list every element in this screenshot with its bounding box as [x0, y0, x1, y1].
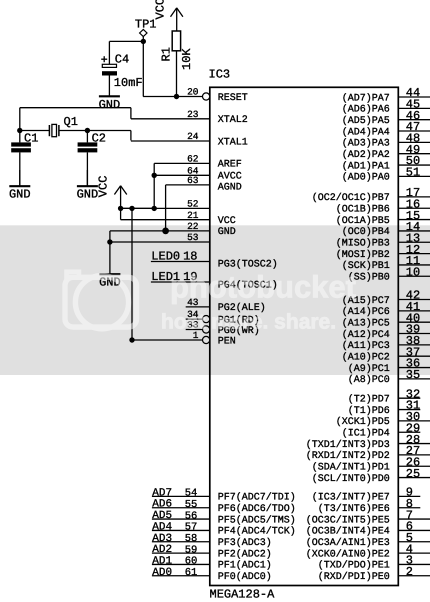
junction PEN branch: [129, 206, 134, 211]
label IC3: [209, 68, 231, 82]
pin label (A8)PC0: [348, 374, 390, 386]
pin label (A12)PC4: [342, 329, 390, 341]
wire pin 55 net AD6: [152, 507, 210, 509]
wire pin 5 (OC3A/AIN1)PE3: [398, 541, 430, 543]
wire pin 40 (A13)PC5: [398, 321, 430, 323]
pin number 18: [183, 250, 197, 264]
svg-text:TP1: TP1: [135, 17, 157, 31]
wire C4 top: [108, 41, 110, 64]
pin label PG0(WR): [218, 325, 260, 337]
pin label (SCK)PB1: [342, 260, 390, 272]
pin label PG1(RD): [218, 314, 260, 326]
pin label PF6(ADC6/TDO): [218, 503, 296, 515]
wire pin 2 (RXD/PDI)PE0: [398, 575, 430, 577]
pin label (TXD1/INT3)PD3: [306, 439, 390, 451]
wire pin 39 (A12)PC4: [398, 333, 430, 335]
label C4: [115, 52, 129, 66]
junction AVCC: [152, 173, 157, 178]
wire pin 8 (T3/INT6)PE6: [398, 507, 420, 509]
pin number 35: [406, 368, 420, 382]
ground (GND net): [99, 242, 121, 290]
pin number 40: [406, 311, 420, 325]
pin label VCC: [218, 216, 236, 227]
svg-text:AD6: AD6: [152, 499, 172, 511]
ground (C4): [99, 76, 121, 112]
pin label PG3(TOSC2): [218, 259, 278, 271]
junction R1/RESET: [174, 94, 179, 99]
svg-text:(SDA/INT1)PD1: (SDA/INT1)PD1: [312, 462, 390, 474]
pin label (T2)PD7: [348, 394, 390, 406]
inversion bubble pin 20: [203, 93, 210, 100]
pin number 2: [406, 565, 413, 579]
pin label PG4(TOSC1): [218, 280, 278, 292]
wire pin 42 (A15)PC7: [398, 299, 430, 301]
wire crystal horizontal: [20, 131, 131, 141]
net label LED0: [151, 250, 180, 264]
pin label (T1)PD6: [348, 405, 390, 417]
wire pin 22: [110, 230, 210, 232]
pin number 43: [187, 297, 199, 308]
pin number 62: [187, 154, 199, 165]
wire pin 30 (XCK1)PD5: [398, 420, 430, 422]
wire pin 7 (OC3C/INT5)PE5: [398, 518, 430, 520]
pin label AVCC: [218, 172, 242, 183]
pin label (OC3C/INT5)PE5: [306, 514, 390, 526]
wire pin 31 (T1)PD6: [398, 409, 420, 411]
pin number 11: [406, 254, 420, 268]
wire pin 45 (AD6)PA6: [398, 107, 430, 109]
pin number 53: [187, 232, 199, 243]
wire pin 62: [154, 162, 210, 164]
ground (C1): [19, 152, 21, 185]
svg-text:(AD2)PA2: (AD2)PA2: [342, 149, 390, 161]
svg-text:AD4: AD4: [152, 521, 172, 533]
pin number 14: [406, 220, 420, 234]
svg-text:IC3: IC3: [209, 68, 231, 82]
pin label XTAL2: [218, 115, 248, 126]
wire VCC to pin52: [121, 207, 155, 209]
wire pin 14 (OC0)PB4: [398, 230, 430, 232]
pin number 48: [406, 132, 420, 146]
svg-text:10mF: 10mF: [114, 76, 143, 90]
wire pin 23: [131, 118, 210, 120]
wire pin 49 (AD2)PA2: [398, 153, 430, 155]
svg-text:C2: C2: [92, 131, 106, 145]
pin number 59: [185, 544, 198, 556]
svg-text:XTAL1: XTAL1: [218, 137, 248, 148]
pin number 24: [187, 131, 199, 142]
capacitor C2: [78, 131, 98, 153]
svg-text:61: 61: [185, 567, 198, 579]
pin label (MOSI)PB2: [336, 249, 390, 261]
svg-text:(AD7)PA7: (AD7)PA7: [342, 92, 390, 104]
svg-text:VCC: VCC: [97, 176, 111, 198]
svg-text:55: 55: [185, 499, 198, 511]
pin number 19: [183, 270, 197, 284]
pin label PF4(ADC4/TCK): [218, 526, 296, 538]
svg-text:(AD1)PA1: (AD1)PA1: [342, 160, 390, 172]
pin label (AD5)PA5: [342, 115, 390, 127]
svg-text:host more. share.: host more. share.: [161, 310, 336, 333]
net label AD7: [152, 487, 172, 499]
svg-text:(OC3B/INT4)PE4: (OC3B/INT4)PE4: [306, 526, 390, 538]
pin label (A14)PC6: [342, 306, 390, 318]
svg-text:AGND: AGND: [218, 182, 242, 193]
plus sign C4: [101, 56, 107, 62]
svg-text:PF3(ADC3): PF3(ADC3): [218, 537, 272, 549]
wire pin 64: [154, 174, 210, 176]
wire pin 51 (AD0)PA0: [398, 175, 430, 177]
svg-text:(TXD1/INT3)PD3: (TXD1/INT3)PD3: [306, 439, 390, 451]
pin label (IC3/INT7)PE7: [312, 492, 390, 504]
pin number 29: [406, 421, 420, 435]
watermark wordmark photobucket: [170, 270, 356, 305]
ground (C2): [86, 152, 88, 185]
svg-text:C1: C1: [24, 131, 38, 145]
pin label (OC2/OC1C)PB7: [312, 192, 390, 204]
pin number 10: [406, 265, 420, 279]
pin label (RXD/PDI)PE0: [318, 571, 390, 583]
wire pin 60 net AD1: [152, 563, 210, 565]
pin number 17: [406, 186, 420, 200]
junction PEN: [129, 337, 134, 342]
capacitor C1: [11, 131, 31, 153]
wire pin 54 net AD7: [152, 495, 210, 497]
pin label (AD2)PA2: [342, 149, 390, 161]
svg-text:(RXD1/INT2)PD2: (RXD1/INT2)PD2: [306, 450, 390, 462]
power VCC arrow top: [154, 0, 183, 31]
wire pin 4 (XCK0/AIN0)PE2: [398, 552, 430, 554]
pin number 9: [406, 486, 413, 500]
pin label PF2(ADC2): [218, 548, 272, 560]
pin label PF7(ADC7/TDI): [218, 492, 296, 504]
pin number 4: [406, 542, 413, 556]
pin label (OC3A/AIN1)PE3: [306, 537, 390, 549]
wire pin 38 (A11)PC3: [398, 344, 430, 346]
svg-text:57: 57: [185, 522, 198, 534]
wire pin 24: [131, 140, 210, 142]
wire AREF/AVCC vertical: [153, 163, 155, 208]
pin number 32: [406, 387, 420, 401]
svg-text:C4: C4: [115, 52, 129, 66]
svg-text:GND: GND: [99, 98, 121, 112]
pin label GND: [218, 227, 236, 238]
svg-text:(AD5)PA5: (AD5)PA5: [342, 115, 390, 127]
svg-text:(XCK1)PD5: (XCK1)PD5: [336, 416, 390, 428]
wire pin 50 (AD1)PA1: [398, 164, 430, 166]
pin label (AD0)PA0: [342, 172, 390, 184]
svg-text:AD5: AD5: [152, 510, 172, 522]
pin number 12: [406, 243, 420, 257]
wire pin 58 net AD3: [152, 541, 210, 543]
net label AD4: [152, 521, 172, 533]
svg-text:(AD3)PA3: (AD3)PA3: [342, 138, 390, 150]
wire pin 9 (IC3/INT7)PE7: [398, 495, 420, 497]
pin label (AD7)PA7: [342, 92, 390, 104]
svg-text:AD0: AD0: [152, 567, 172, 579]
wire VCC down to pin21: [120, 208, 122, 219]
svg-text:PF1(ADC1): PF1(ADC1): [218, 560, 272, 572]
pin number 61: [185, 567, 198, 579]
svg-text:25: 25: [406, 467, 420, 481]
svg-text:(OC2/OC1C)PB7: (OC2/OC1C)PB7: [312, 192, 390, 204]
watermark tagline: [161, 310, 336, 333]
svg-text:2: 2: [406, 565, 413, 579]
wire pin 52: [121, 207, 210, 209]
svg-text:AD1: AD1: [152, 555, 172, 567]
svg-text:AVCC: AVCC: [218, 172, 242, 183]
net label AD3: [152, 533, 172, 545]
wire TP1 node down to RESET wire: [142, 41, 144, 96]
wire AGND vertical to GND net: [165, 185, 167, 231]
net label AD6: [152, 499, 172, 511]
inversion bubble pin 34: [203, 316, 210, 323]
svg-text:AD7: AD7: [152, 487, 172, 499]
svg-text:RESET: RESET: [218, 93, 248, 104]
pin number 55: [185, 499, 198, 511]
wire pin 25 (SCL/INT0)PD0: [398, 477, 430, 479]
wire pin 56 net AD5: [152, 518, 210, 520]
pin number 37: [406, 345, 420, 359]
wire pin 13 (MISO)PB3: [398, 241, 430, 243]
svg-text:(AD6)PA6: (AD6)PA6: [342, 104, 390, 116]
wire pin 61 net AD0: [152, 575, 210, 577]
junction GND/53: [107, 239, 112, 244]
pin label (OC1A)PB5: [336, 215, 390, 227]
svg-text:60: 60: [185, 556, 198, 568]
net label AD5: [152, 510, 172, 522]
svg-text:AREF: AREF: [218, 160, 242, 171]
wire pin 53: [110, 241, 210, 243]
label R1: [160, 47, 174, 61]
value 10mF: [114, 76, 143, 90]
pin number 3: [406, 554, 413, 568]
pin number 44: [406, 86, 420, 100]
pin number 7: [406, 508, 413, 522]
pin number 46: [406, 109, 420, 123]
pin label (MISO)PB3: [336, 238, 390, 250]
watermark band: [0, 225, 430, 375]
pin number 47: [406, 120, 420, 134]
pin number 15: [406, 209, 420, 223]
wire XTAL2 net: C1 node up and right: [20, 108, 131, 131]
pin number 52: [187, 199, 199, 210]
wire pin 47 (AD4)PA4: [398, 130, 430, 132]
pin label (AD3)PA3: [342, 138, 390, 150]
pin label (A13)PC5: [342, 317, 390, 329]
power VCC arrow (AVCC): [97, 176, 127, 209]
wire pin 6 (OC3B/INT4)PE4: [398, 529, 430, 531]
label C1: [24, 131, 38, 145]
svg-text:(T2)PD7: (T2)PD7: [348, 394, 390, 406]
pin number 25: [406, 467, 420, 481]
svg-text:AD2: AD2: [152, 544, 172, 556]
op-amp U1 IC3 MEGA128-A body: [210, 87, 398, 585]
svg-text:51: 51: [406, 166, 420, 180]
resistor R1: [172, 31, 180, 51]
pin label AREF: [218, 160, 242, 171]
svg-text:PF4(ADC4/TCK): PF4(ADC4/TCK): [218, 526, 296, 538]
svg-text:(T1)PD6: (T1)PD6: [348, 405, 390, 417]
pin number 41: [406, 300, 420, 314]
pin number 51: [406, 166, 420, 180]
pin label (SS)PB0: [348, 272, 390, 284]
wire pin 37 (A10)PC2: [398, 355, 430, 357]
pin label PF5(ADC5/TMS): [218, 514, 296, 526]
pin number 54: [185, 488, 198, 500]
svg-text:AD3: AD3: [152, 533, 172, 545]
pin label (XCK1)PD5: [336, 416, 390, 428]
pin number 49: [406, 143, 420, 157]
pin label PF1(ADC1): [218, 560, 272, 572]
wire pin 21: [121, 219, 210, 221]
svg-text:(XCK0/AIN0)PE2: (XCK0/AIN0)PE2: [306, 548, 390, 560]
pin number 34: [187, 309, 199, 320]
svg-text:PF2(ADC2): PF2(ADC2): [218, 548, 272, 560]
inversion bubble pin 33: [203, 326, 210, 333]
svg-text:(AD0)PA0: (AD0)PA0: [342, 172, 390, 184]
svg-text:XTAL2: XTAL2: [218, 115, 248, 126]
pin number 36: [406, 357, 420, 371]
pin label (A11)PC3: [342, 340, 390, 352]
svg-text:MEGA128-A: MEGA128-A: [210, 588, 276, 602]
wire pin 12 (MOSI)PB2: [398, 253, 430, 255]
wire pin 11 (SCK)PB1: [398, 264, 430, 266]
wire pin 18 net LED0: [151, 261, 210, 263]
pin number 20: [187, 87, 199, 98]
wire pin 17 (OC2/OC1C)PB7: [398, 196, 430, 198]
pin number 39: [406, 323, 420, 337]
wire pin 16 (OC1B)PB6: [398, 207, 430, 209]
pin label (A15)PC7: [342, 295, 390, 307]
wire pin 48 (AD3)PA3: [398, 141, 430, 143]
svg-text:GND: GND: [77, 188, 99, 202]
value 10K: [180, 48, 194, 70]
pin label (AD1)PA1: [342, 160, 390, 172]
wire PEN vertical: [131, 208, 133, 340]
wire pin 36 (A9)PC1: [398, 367, 430, 369]
pin label (TXD/PDO)PE1: [318, 560, 390, 572]
pin label PF3(ADC3): [218, 537, 272, 549]
wire GND pin22 left: [109, 231, 111, 242]
net label AD0: [152, 567, 172, 579]
crystal Q1: [49, 124, 59, 136]
wire pin 41 (A14)PC6: [398, 310, 430, 312]
pin number 6: [406, 520, 413, 534]
net label LED1: [151, 270, 180, 284]
value label MEGA128-A: [210, 588, 276, 602]
svg-text:(TXD/PDO)PE1: (TXD/PDO)PE1: [318, 560, 390, 572]
net label AD2: [152, 544, 172, 556]
wire pin 46 (AD5)PA5: [398, 119, 430, 121]
pin number 1: [193, 330, 199, 341]
wire pin 43: [186, 306, 210, 308]
ground bar (C2): [77, 170, 99, 202]
svg-text:PF5(ADC5/TMS): PF5(ADC5/TMS): [218, 514, 296, 526]
junction VCC/52: [118, 206, 123, 211]
wire pin 32 (T2)PD7: [398, 397, 420, 399]
ground bar (C1): [9, 170, 31, 202]
pin label (OC1B)PB6: [336, 204, 390, 216]
pin number 21: [187, 210, 199, 221]
pin number 22: [187, 221, 199, 232]
pin label (SDA/INT1)PD1: [312, 462, 390, 474]
wire pin 44 (AD7)PA7: [398, 96, 430, 98]
wire pin 19 net LED1: [151, 281, 210, 283]
junction TP1 node: [141, 39, 146, 44]
pin label (AD6)PA6: [342, 104, 390, 116]
svg-text:(IC3/INT7)PE7: (IC3/INT7)PE7: [312, 492, 390, 504]
pin label (SCL/INT0)PD0: [312, 473, 390, 485]
pin label (A9)PC1: [348, 363, 390, 375]
junction C2 node: [85, 128, 90, 133]
wire pin 15 (OC1A)PB5: [398, 219, 430, 221]
wire pin 29 (IC1)PD4: [398, 431, 420, 433]
svg-text:(T3/INT6)PE6: (T3/INT6)PE6: [318, 503, 390, 515]
wire pin 3 (TXD/PDO)PE1: [398, 563, 430, 565]
wire pin 33: [186, 329, 203, 331]
wire R1 bottom to RESET: [176, 51, 178, 97]
wire pin 59 net AD2: [152, 552, 210, 554]
label C2: [92, 131, 106, 145]
pin number 38: [406, 334, 420, 348]
pin number 30: [406, 410, 420, 424]
pin label (A10)PC2: [342, 352, 390, 364]
pin number 63: [187, 175, 199, 186]
pin label (T3/INT6)PE6: [318, 503, 390, 515]
pin label PF0(ADC0): [218, 571, 272, 583]
junction AGND/GND: [162, 228, 169, 235]
svg-text:(AD4)PA4: (AD4)PA4: [342, 126, 390, 138]
svg-text:(OC3A/AIN1)PE3: (OC3A/AIN1)PE3: [306, 537, 390, 549]
svg-text:R1: R1: [160, 47, 174, 61]
pin label (OC0)PB4: [342, 226, 390, 238]
svg-text:(OC1B)PB6: (OC1B)PB6: [336, 204, 390, 216]
junction C1 node: [17, 128, 22, 133]
pin number 50: [406, 154, 420, 168]
pin number 45: [406, 98, 420, 112]
pin number 33: [187, 320, 199, 331]
pin number 56: [185, 510, 198, 522]
pin number 13: [406, 231, 420, 245]
svg-text:photobucket: photobucket: [170, 270, 356, 305]
pin number 60: [185, 556, 198, 568]
svg-text:PF7(ADC7/TDI): PF7(ADC7/TDI): [218, 492, 296, 504]
pin label (RXD1/INT2)PD2: [306, 450, 390, 462]
wire pin 27 (RXD1/INT2)PD2: [398, 454, 430, 456]
svg-text:(A8)PC0: (A8)PC0: [348, 374, 390, 386]
svg-text:Q1: Q1: [64, 115, 78, 129]
watermark camera icon: [65, 272, 137, 329]
svg-text:58: 58: [185, 533, 198, 545]
svg-text:(OC1A)PB5: (OC1A)PB5: [336, 215, 390, 227]
pin label AGND: [218, 182, 242, 193]
wire pin 63: [166, 184, 210, 186]
svg-text:10K: 10K: [180, 48, 194, 70]
wire pin 57 net AD4: [152, 529, 210, 531]
label TP1: [135, 17, 157, 31]
wire pin 28 (TXD1/INT3)PD3: [398, 443, 430, 445]
pin number 23: [187, 109, 199, 120]
svg-text:(SCL/INT0)PD0: (SCL/INT0)PD0: [312, 473, 390, 485]
label Q1: [64, 115, 78, 129]
pin label (IC1)PD4: [342, 428, 390, 440]
pin label XTAL1: [218, 137, 248, 148]
wire pin 26 (SDA/INT1)PD1: [398, 465, 430, 467]
svg-text:59: 59: [185, 544, 198, 556]
pin label (OC3B/INT4)PE4: [306, 526, 390, 538]
pin number 26: [406, 455, 420, 469]
